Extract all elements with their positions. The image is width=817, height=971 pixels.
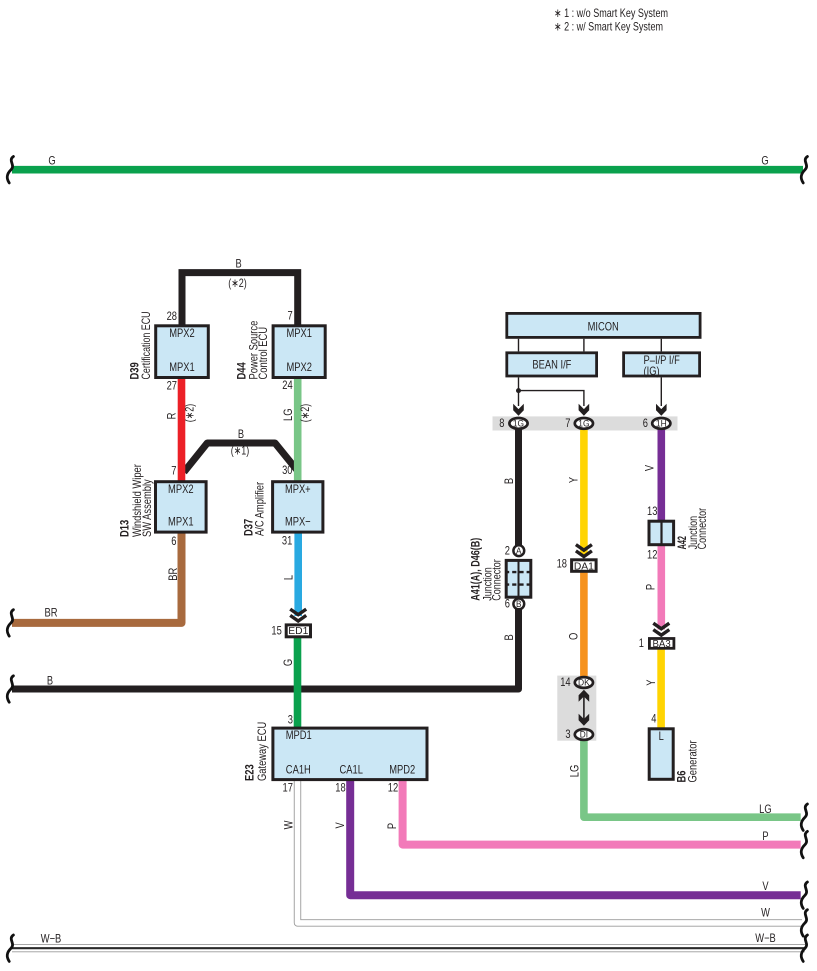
break B left	[7, 676, 13, 702]
wire V from 1H to A42	[657, 430, 665, 522]
wire O from DA1 to DK	[580, 572, 588, 679]
svg-text:6: 6	[171, 534, 176, 548]
svg-text:MPX1: MPX1	[168, 515, 194, 529]
svg-text:MPX1: MPX1	[286, 326, 312, 340]
wire MICON to BEAN IF left	[518, 339, 520, 352]
wire MICON to BEAN IF right	[583, 339, 585, 352]
svg-text:G: G	[281, 659, 295, 666]
svg-text:(∗2): (∗2)	[298, 404, 312, 423]
svg-text:L: L	[659, 729, 664, 743]
break P right	[801, 831, 807, 857]
svg-text:DI: DI	[580, 730, 588, 740]
junction dot	[516, 388, 521, 393]
box D44 Power Source Control ECU	[273, 326, 325, 378]
svg-text:BA3: BA3	[653, 639, 671, 650]
svg-text:B: B	[236, 256, 242, 270]
svg-text:Gateway ECU: Gateway ECU	[255, 722, 269, 781]
svg-text:Y: Y	[644, 680, 658, 686]
double arrow DK to DI	[579, 690, 590, 726]
wire P from A42 to BA3	[657, 545, 665, 630]
svg-text:7: 7	[565, 416, 570, 430]
break W-B right	[801, 935, 807, 961]
connector circle B pin6	[505, 597, 524, 611]
svg-text:1G: 1G	[513, 419, 524, 429]
svg-text:MPX1: MPX1	[169, 360, 195, 374]
svg-text:LG: LG	[568, 765, 582, 778]
wire B bypass *1	[184, 443, 297, 472]
connector box DA1 pin18	[557, 557, 597, 573]
svg-text:Y: Y	[567, 477, 581, 483]
svg-text:30: 30	[282, 463, 293, 477]
break G right	[801, 157, 807, 183]
chevron arrows above ED1	[290, 609, 306, 615]
svg-text:12: 12	[647, 548, 658, 562]
svg-text:18: 18	[557, 557, 568, 571]
svg-text:6: 6	[505, 597, 510, 611]
connector circle A pin2	[505, 544, 524, 558]
wire BR from D13	[12, 532, 182, 623]
junction connector A42	[647, 504, 674, 562]
svg-text:MICON: MICON	[588, 320, 619, 334]
svg-text:3: 3	[565, 727, 570, 741]
box D37 A/C Amplifier	[273, 482, 323, 532]
wire P-IP IF to 1H	[660, 377, 662, 406]
connector oval 1H pin6	[643, 416, 671, 430]
gray band connector row 1G 1G 1H	[493, 416, 678, 430]
svg-text:(∗1): (∗1)	[231, 444, 250, 458]
svg-text:∗ 1 : w/o Smart Key System: ∗ 1 : w/o Smart Key System	[554, 6, 668, 20]
arrowhead to 1H pin6	[656, 404, 667, 416]
connector oval DK pin14	[560, 675, 593, 689]
svg-text:Control ECU: Control ECU	[256, 327, 270, 380]
svg-text:Certification ECU: Certification ECU	[139, 312, 153, 380]
svg-text:W−B: W−B	[755, 931, 776, 945]
wire B from 1G to A41	[515, 430, 522, 548]
svg-text:MPX2: MPX2	[168, 482, 194, 496]
junction connector A41(A) D46(B)	[505, 560, 532, 597]
svg-text:7: 7	[288, 308, 293, 322]
chevron arrows above BA3	[653, 623, 669, 629]
wire G bus top	[12, 166, 803, 174]
box B6 Generator	[649, 729, 673, 780]
svg-text:P: P	[643, 584, 657, 590]
svg-text:V: V	[333, 822, 347, 828]
svg-text:W: W	[281, 820, 295, 829]
svg-text:MPX−: MPX−	[285, 515, 311, 529]
svg-text:W: W	[761, 906, 770, 920]
box D13 Windshield Wiper SW Assembly	[156, 482, 207, 532]
svg-text:B: B	[502, 478, 516, 484]
break V right	[801, 882, 807, 908]
break W-B left	[7, 935, 13, 961]
svg-text:BR: BR	[166, 568, 180, 581]
svg-text:27: 27	[167, 378, 178, 392]
svg-text:G: G	[761, 154, 768, 168]
svg-text:DA1: DA1	[574, 561, 594, 572]
svg-text:6: 6	[643, 416, 648, 430]
svg-text:MPX2: MPX2	[169, 326, 195, 340]
svg-text:CA1L: CA1L	[340, 762, 364, 776]
svg-text:MPD1: MPD1	[286, 728, 312, 742]
svg-text:P: P	[385, 823, 399, 829]
svg-text:CA1H: CA1H	[286, 762, 311, 776]
wire LG D44 to D37	[294, 378, 302, 483]
connector oval DI pin3	[565, 727, 593, 741]
svg-text:V: V	[642, 465, 656, 471]
chevron arrows above DA1	[576, 545, 592, 551]
break BR left	[7, 610, 13, 636]
wire B bus bottom	[12, 609, 519, 689]
svg-text:1: 1	[639, 636, 644, 650]
arrowhead to 1G pin7	[579, 404, 590, 416]
svg-text:31: 31	[282, 534, 293, 548]
svg-text:17: 17	[283, 780, 294, 794]
svg-text:B: B	[238, 427, 244, 441]
svg-text:A/C Amplifier: A/C Amplifier	[253, 482, 267, 536]
wire W-B bus bottom	[12, 944, 805, 952]
svg-text:B: B	[47, 673, 53, 687]
svg-text:13: 13	[647, 504, 658, 518]
wire LG from DI	[584, 741, 801, 818]
svg-text:15: 15	[271, 623, 282, 637]
svg-text:∗ 2 : w/ Smart Key System: ∗ 2 : w/ Smart Key System	[554, 20, 663, 34]
svg-text:1H: 1H	[656, 419, 667, 429]
wire R D39 to D13	[178, 378, 186, 483]
svg-text:4: 4	[651, 711, 656, 725]
box MICON	[507, 313, 700, 337]
svg-text:(∗2): (∗2)	[183, 404, 197, 423]
connector oval 1G pin7	[565, 416, 593, 430]
svg-text:G: G	[48, 154, 55, 168]
wire W from E23 CA1H	[298, 779, 803, 923]
svg-text:1G: 1G	[578, 419, 589, 429]
connector box BA3 pin1	[639, 636, 674, 650]
svg-text:B: B	[502, 634, 516, 640]
box BEAN IF	[507, 353, 597, 376]
svg-text:18: 18	[335, 780, 346, 794]
wire BEAN IF to 1G pin8	[518, 377, 520, 406]
wire B loop D39 to D44	[182, 273, 298, 326]
svg-text:L: L	[282, 575, 296, 580]
box P-IP IF	[624, 353, 700, 378]
svg-text:SW Assembly: SW Assembly	[140, 479, 154, 537]
wire G from ED1 to E23	[294, 638, 302, 729]
svg-text:Connector: Connector	[490, 559, 504, 601]
break W right	[801, 910, 807, 936]
wire branch to 1G pin7	[519, 391, 584, 406]
wire P from E23 MPD2	[403, 779, 801, 845]
svg-text:W−B: W−B	[41, 931, 62, 945]
wire MICON to P-IP IF	[660, 339, 662, 352]
gray band DK DI	[557, 676, 596, 741]
svg-text:(IG): (IG)	[644, 364, 660, 378]
svg-text:B: B	[516, 599, 522, 609]
break G left	[7, 157, 13, 183]
wire V from E23 CA1L	[350, 779, 801, 895]
svg-text:ED1: ED1	[288, 626, 308, 637]
svg-text:28: 28	[167, 309, 178, 323]
wire Y from 1G to DA1	[580, 430, 588, 556]
break LG right	[801, 804, 807, 830]
svg-text:BR: BR	[45, 605, 58, 619]
connector box ED1 pin15	[271, 623, 310, 637]
svg-text:Generator: Generator	[686, 740, 700, 782]
svg-text:DK: DK	[578, 678, 590, 688]
svg-text:12: 12	[388, 780, 399, 794]
wire L from D37	[294, 532, 302, 616]
svg-text:7: 7	[171, 463, 176, 477]
svg-text:BEAN I/F: BEAN I/F	[532, 357, 571, 371]
svg-text:O: O	[567, 633, 581, 640]
box D39 Certification ECU	[156, 326, 209, 378]
svg-text:A: A	[516, 546, 522, 556]
svg-text:V: V	[762, 879, 768, 893]
svg-text:(∗2): (∗2)	[228, 276, 247, 290]
svg-text:14: 14	[560, 675, 571, 689]
svg-text:LG: LG	[759, 802, 772, 816]
svg-text:8: 8	[499, 416, 504, 430]
arrowhead to 1G pin8	[513, 404, 524, 416]
svg-text:R: R	[164, 412, 178, 419]
svg-text:MPD2: MPD2	[389, 762, 415, 776]
connector oval 1G pin8	[499, 416, 527, 430]
svg-text:2: 2	[505, 544, 510, 558]
svg-text:3: 3	[288, 712, 293, 726]
box E23 Gateway ECU	[273, 728, 427, 780]
svg-text:24: 24	[282, 378, 293, 392]
svg-text:MPX2: MPX2	[286, 360, 312, 374]
svg-text:P: P	[762, 829, 768, 843]
svg-text:MPX+: MPX+	[285, 482, 311, 496]
svg-text:Connector: Connector	[695, 508, 709, 550]
wire Y from BA3 to B6	[657, 649, 665, 729]
svg-text:LG: LG	[281, 408, 295, 421]
